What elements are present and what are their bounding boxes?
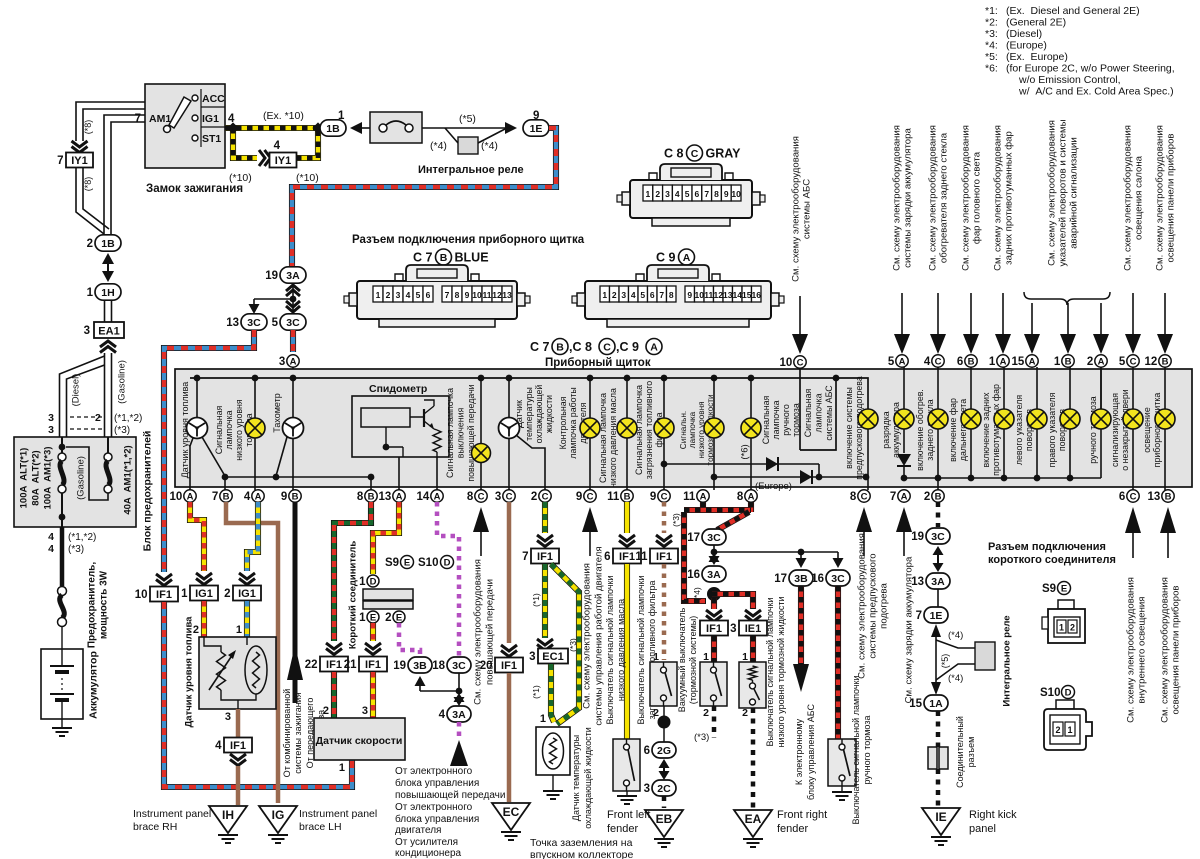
svg-text:17: 17 (774, 573, 787, 585)
wire big dot to IF1 (711, 598, 717, 609)
svg-text:правого указателя: правого указателя (1047, 392, 1057, 467)
svg-text:8: 8 (850, 491, 857, 503)
svg-text:EA: EA (745, 812, 762, 826)
svg-text:(Europe): (Europe) (1006, 40, 1047, 52)
wire 4 IF1 to IH ground brown (236, 766, 241, 805)
svg-text:Выключатель сигнальной лампочк: Выключатель сигнальной лампочки (636, 576, 646, 725)
svg-text:задних противотуманных фар: задних противотуманных фар (1003, 131, 1014, 265)
svg-text:От электронного: От электронного (395, 802, 473, 813)
svg-text:(*4): (*4) (481, 140, 498, 152)
svg-text:противотуманных фар: противотуманных фар (991, 384, 1001, 476)
svg-text:освещения салона: освещения салона (1133, 155, 1144, 240)
connector C8 drawing (630, 180, 752, 218)
svg-text:S10: S10 (418, 557, 438, 569)
svg-text:3A: 3A (452, 709, 466, 721)
arrow to 10C from ABS circuit (799, 296, 801, 334)
svg-text:3A: 3A (707, 569, 721, 581)
ground IE right kick panel (922, 808, 960, 835)
diode charge lamp (897, 454, 911, 466)
bus junction (252, 375, 259, 382)
svg-text:4: 4 (924, 356, 931, 368)
ground EA front right fender ground (743, 839, 763, 847)
svg-text:Сигнальная лампочка: Сигнальная лампочка (598, 393, 608, 483)
svg-text:1E: 1E (930, 610, 943, 622)
svg-text:Соединительный: Соединительный (955, 716, 965, 788)
svg-text:C: C (1130, 356, 1137, 367)
svg-text:A: A (1098, 356, 1105, 367)
svg-text:Аккумулятор: Аккумулятор (88, 651, 100, 719)
indicator lamp (1060, 409, 1080, 429)
svg-text:C 7: C 7 (530, 340, 550, 354)
svg-text:4: 4 (439, 709, 446, 721)
svg-text:4: 4 (675, 189, 680, 199)
svg-text:Датчик уровня топлива: Датчик уровня топлива (183, 616, 194, 728)
svg-text:A: A (290, 356, 297, 367)
svg-text:2: 2 (386, 290, 391, 300)
svg-text:3: 3 (48, 412, 54, 424)
wire bottom bus to 2B exit (937, 478, 939, 490)
relay path top (445, 127, 505, 129)
wire temp gauge to 2C (516, 435, 545, 490)
svg-text:4: 4 (48, 531, 54, 543)
panel bottom bus wire left (225, 476, 372, 478)
svg-text:короткого соединителя: короткого соединителя (988, 554, 1116, 566)
svg-text:1: 1 (989, 356, 996, 368)
svg-text:лампочка: лампочка (688, 411, 697, 448)
wire EA1 branch diesel (60, 356, 105, 437)
svg-text:4: 4 (406, 290, 411, 300)
svg-text:10: 10 (695, 290, 705, 300)
chevron into 10 IF1 (156, 574, 172, 586)
svg-text:8: 8 (737, 491, 744, 503)
svg-text:охлаждающей жидкости: охлаждающей жидкости (583, 727, 593, 829)
svg-text:См. схему электрооборудования: См. схему электрооборудования (1125, 577, 1136, 723)
svg-text:освещения панели приборов: освещения панели приборов (1170, 585, 1181, 714)
arrow 9C up (582, 507, 598, 532)
svg-text:Точка заземления на: Точка заземления на (530, 837, 633, 849)
wire IG1 to sender pin 2 (201, 601, 207, 637)
svg-text:1: 1 (236, 624, 242, 636)
svg-text:10: 10 (135, 589, 148, 601)
chevron into 20 IF1 (501, 645, 517, 657)
connector S9 drawing (1058, 600, 1074, 609)
junction in fuse block (59, 444, 66, 451)
wire 3A to junction (292, 284, 294, 299)
wire 3B to ABS ecu red-black (798, 586, 804, 664)
wire ignition loop down (233, 128, 257, 158)
wire tach to 9B (292, 438, 294, 490)
svg-text:См. схему электрооборудования: См. схему электрооборудования (790, 136, 801, 282)
svg-text:B: B (935, 491, 942, 502)
wire 7 IF1 down left (542, 564, 548, 638)
indicator lamp (894, 409, 914, 429)
svg-text:(*3): (*3) (671, 513, 681, 527)
wire IY1 to 1B (76, 168, 104, 234)
arrow 3C to 3A right (937, 548, 939, 570)
svg-text:6: 6 (650, 290, 655, 300)
svg-text:panel: panel (969, 823, 996, 835)
svg-text:1: 1 (359, 576, 366, 588)
arrow into 17 3B (800, 552, 802, 558)
svg-text:9: 9 (687, 290, 692, 300)
chevron into 11 IF1 (656, 535, 672, 547)
speed sensor box (314, 718, 405, 760)
svg-text:Спидометр: Спидометр (369, 383, 427, 395)
svg-text:13: 13 (1148, 491, 1161, 503)
svg-text:ручного: ручного (781, 404, 791, 436)
diode junction (816, 474, 823, 481)
svg-text:,C 9: ,C 9 (616, 340, 639, 354)
svg-text:3C: 3C (452, 660, 466, 672)
svg-text:См. схему электрооборудования: См. схему электрооборудования (472, 559, 483, 705)
svg-text:См. схему электрооборудования: См. схему электрооборудования (856, 533, 867, 679)
ground IE right kick panel ground (931, 837, 951, 845)
ground IG instrument panel brace LH (259, 806, 297, 833)
terminal contact AM1 (164, 126, 171, 133)
svg-text:охлаждающей: охлаждающей (534, 385, 544, 444)
svg-text:Сигнальная: Сигнальная (803, 389, 813, 438)
diode D2 (800, 470, 812, 484)
tachometer gauge (283, 418, 304, 439)
wire pin to lamp (1132, 367, 1134, 409)
terminal contact ACC (192, 95, 198, 101)
svg-text:3: 3 (495, 491, 501, 503)
diode wire 1 (664, 463, 819, 465)
svg-text:См. схему электрооборудования: См. схему электрооборудования (960, 125, 971, 271)
ground EC intake manifold ground (501, 832, 521, 840)
wire 11B yellow (624, 502, 630, 533)
junction below 3A (290, 296, 297, 303)
arrow to ABS ecu (793, 664, 809, 692)
svg-text:A: A (748, 491, 755, 502)
svg-text:системы зажигания: системы зажигания (293, 692, 303, 773)
svg-text:разъем: разъем (966, 737, 976, 768)
svg-text:ручного тормоза: ручного тормоза (862, 716, 872, 785)
svg-text:приборного щитка: приборного щитка (1152, 393, 1162, 468)
sender internal wires (204, 637, 256, 709)
svg-text:блоку управления АБС: блоку управления АБС (806, 703, 816, 800)
svg-text:подогрева: подогрева (878, 582, 889, 628)
wire 2C to EB black dashed (662, 796, 667, 808)
svg-text:включение задних: включение задних (981, 392, 991, 468)
svg-text:20: 20 (480, 660, 493, 672)
svg-text:*4:: *4: (985, 40, 998, 52)
wire sender to 4 IF1 brown (236, 709, 241, 738)
svg-text:2: 2 (1070, 623, 1075, 633)
svg-text:B: B (1162, 356, 1169, 367)
bus junction (290, 375, 297, 382)
svg-text:1B: 1B (101, 238, 115, 250)
svg-text:GRAY: GRAY (706, 147, 742, 161)
svg-text:См. схему электрооборудования: См. схему электрооборудования (927, 125, 938, 271)
wire 9C brown dashed (662, 502, 667, 533)
wire door lamp to 6C exit (1132, 429, 1134, 490)
svg-text:2: 2 (95, 412, 101, 424)
svg-text:B: B (968, 356, 975, 367)
svg-text:сигнализирующая: сигнализирующая (1110, 393, 1120, 467)
svg-text:Интегральное реле: Интегральное реле (1001, 615, 1012, 706)
svg-text:От электронного: От электронного (395, 766, 473, 777)
svg-text:IG1: IG1 (195, 588, 213, 600)
bus junction (748, 375, 755, 382)
oil pressure switch (613, 739, 640, 791)
diode junction 8C column (863, 474, 870, 481)
svg-text:4: 4 (631, 290, 636, 300)
svg-text:15: 15 (1012, 356, 1025, 368)
svg-text:(*3): (*3) (68, 544, 84, 555)
svg-text:3: 3 (644, 783, 650, 795)
svg-text:IG1: IG1 (238, 588, 256, 600)
bottom bus junction 8B (368, 474, 375, 481)
parking brake switch ground wire (841, 786, 843, 791)
svg-text:1: 1 (602, 290, 607, 300)
svg-text:19: 19 (393, 660, 406, 672)
parking brake switch ground (832, 792, 852, 800)
ground IH instrument panel brace RH (209, 806, 247, 833)
vacuum switch (650, 662, 677, 706)
svg-text:9: 9 (724, 189, 729, 199)
connector C7 drawing (357, 281, 517, 319)
svg-text:4: 4 (48, 543, 54, 555)
wire 11 IF1 to vacuum switch (662, 564, 667, 660)
svg-text:4: 4 (228, 113, 235, 125)
svg-text:2: 2 (742, 707, 748, 719)
wire filter lamp to 9C2 (663, 438, 665, 490)
svg-text:3: 3 (621, 290, 626, 300)
svg-text:10: 10 (472, 290, 482, 300)
wire bus to temp gauge (508, 378, 510, 417)
svg-text:2: 2 (655, 189, 660, 199)
svg-text:IG1: IG1 (202, 113, 219, 125)
bus junction (506, 375, 513, 382)
chevron into IF1 brake (706, 610, 722, 622)
svg-text:IF1: IF1 (156, 589, 172, 601)
wire 3A to 1E right (937, 589, 939, 607)
wire 14A purple (437, 502, 459, 656)
wire red-black horizontal (684, 507, 751, 513)
wire ignition 4 to 1B yellow-black (225, 125, 321, 131)
svg-text:6: 6 (426, 290, 431, 300)
speedometer internal wires (386, 417, 437, 457)
sender wiper arrow (209, 654, 233, 690)
svg-text:12: 12 (714, 290, 724, 300)
arrow 8C glow up (856, 507, 872, 532)
wire IE1 to switch (750, 636, 756, 662)
svg-text:1: 1 (339, 762, 345, 774)
svg-text:3A: 3A (286, 270, 300, 282)
connector S10 drawing (1056, 700, 1074, 709)
svg-text:2C: 2C (657, 783, 671, 795)
svg-text:Блок предохранителей: Блок предохранителей (142, 431, 154, 552)
svg-text:Front right: Front right (777, 809, 827, 821)
sender lamp contact (245, 646, 267, 694)
relay path loop (936, 640, 975, 680)
alt pin dashed line 2 (70, 416, 102, 418)
arrow into 16 3C (837, 552, 839, 558)
svg-text:температуры: температуры (524, 387, 534, 441)
svg-text:B: B (556, 342, 564, 354)
wire 10A yellow-red (190, 502, 204, 571)
wire 1H to EA1 (104, 300, 106, 322)
wire junction to 5 3C (292, 299, 294, 314)
junction line to 3B 3C ovals (714, 551, 838, 553)
svg-text:18: 18 (432, 660, 445, 672)
svg-text:4: 4 (244, 491, 251, 503)
wire IG1 to sender pin 1 (244, 601, 250, 637)
svg-text:9: 9 (465, 290, 470, 300)
chevron into 3 IE1 (745, 610, 761, 622)
wire 3W fuse to battery (61, 626, 63, 649)
wire 8B green-red (334, 502, 371, 641)
svg-text:16: 16 (752, 290, 762, 300)
svg-text:EB: EB (656, 812, 673, 826)
wire joint connector to IE (936, 769, 941, 806)
wire pin to lamp (1069, 367, 1071, 409)
svg-text:двигателя: двигателя (395, 825, 441, 836)
svg-text:(Ex. *10): (Ex. *10) (263, 110, 304, 122)
svg-text:1E: 1E (530, 123, 543, 135)
svg-text:8: 8 (357, 491, 364, 503)
svg-text:внутреннего освещения: внутреннего освещения (1136, 597, 1147, 704)
junction diamond right (312, 122, 323, 133)
svg-text:3B: 3B (794, 573, 808, 585)
svg-text:2: 2 (224, 588, 230, 600)
svg-text:повышающей передачи: повышающей передачи (395, 790, 505, 801)
svg-text:(for Europe 2C, w/o Power Stee: (for Europe 2C, w/o Power Steering, (1006, 63, 1175, 75)
wire 2A pin stub (1100, 367, 1102, 409)
svg-text:1: 1 (703, 651, 709, 663)
svg-text:1: 1 (742, 651, 748, 663)
svg-text:Сигнальн.: Сигнальн. (679, 411, 688, 449)
wire AM1 to IY1 (76, 102, 145, 141)
svg-text:IE1: IE1 (745, 623, 762, 635)
svg-text:16: 16 (811, 573, 824, 585)
svg-text:7: 7 (445, 290, 450, 300)
svg-text:*3:: *3: (985, 28, 998, 40)
svg-text:2: 2 (531, 491, 537, 503)
arrow into top pin (1164, 293, 1166, 334)
svg-text:(Ex. Diesel and General 2E): (Ex. Diesel and General 2E) (1006, 5, 1140, 17)
svg-text:низкого уровня тормозной жидко: низкого уровня тормозной жидкости (776, 596, 786, 747)
svg-text:Right kick: Right kick (969, 809, 1017, 821)
svg-text:3: 3 (84, 325, 90, 337)
svg-text:7: 7 (57, 155, 63, 167)
svg-text:16: 16 (687, 569, 700, 581)
ABS lamp box path (800, 378, 836, 450)
alt pin dashed line 3 (70, 428, 102, 430)
speedometer junction (383, 444, 390, 451)
svg-text:17: 17 (687, 532, 700, 544)
svg-text:1: 1 (1054, 356, 1061, 368)
svg-text:C: C (478, 491, 485, 502)
svg-text:100A AM1(*3): 100A AM1(*3) (42, 446, 53, 509)
arrow into top pin (1132, 293, 1134, 334)
svg-text:5: 5 (685, 189, 690, 199)
arrow up into 1E (931, 624, 941, 637)
svg-text:1: 1 (1059, 623, 1064, 633)
wire 9B black (293, 502, 298, 703)
wire 1A to joint connector (936, 711, 941, 747)
wire pin to lamp (937, 367, 939, 409)
svg-text:6: 6 (1119, 491, 1125, 503)
lamp (*6) (741, 418, 761, 438)
chevron up to 3A (286, 285, 300, 296)
wire pin to lamp (903, 367, 905, 409)
svg-text:Сигнальная лампочка: Сигнальная лампочка (634, 385, 644, 475)
svg-text:IY1: IY1 (275, 155, 292, 167)
svg-text:19: 19 (265, 270, 278, 282)
arrow up into 3B (419, 686, 421, 691)
oil pressure switch ground (617, 796, 637, 804)
wire pin to lamp (1003, 367, 1005, 409)
svg-text:A: A (255, 491, 262, 502)
svg-text:3C: 3C (707, 532, 721, 544)
svg-text:10: 10 (170, 491, 183, 503)
svg-text:Разъем подключения приборного: Разъем подключения приборного щитка (352, 234, 585, 246)
svg-text:загрязнения топливного: загрязнения топливного (644, 381, 654, 480)
svg-text:См. схему электрооборудования: См. схему электрооборудования (1122, 125, 1133, 271)
svg-text:1: 1 (181, 588, 188, 600)
terminal contact IG1 (192, 115, 198, 121)
wire lamp to bottom bus (1069, 429, 1071, 478)
svg-text:B: B (223, 491, 230, 502)
svg-text:D: D (1065, 688, 1072, 699)
svg-text:IF1: IF1 (619, 551, 635, 563)
svg-text:3: 3 (279, 356, 285, 368)
wire fuel gauge to 10A (190, 438, 193, 490)
chevron into 22 IF1 (326, 643, 342, 655)
svg-text:D: D (444, 558, 451, 569)
wire 2E purple (399, 623, 420, 655)
relay element box (458, 137, 478, 154)
bottom bus junction (901, 475, 908, 482)
connector 9 1E (523, 120, 549, 136)
svg-text:разрядка: разрядка (881, 411, 891, 448)
svg-text:(*8): (*8) (83, 120, 93, 135)
arrow down into 1A (931, 682, 941, 695)
svg-text:1H: 1H (101, 287, 114, 299)
svg-text:5: 5 (272, 317, 279, 329)
svg-text:*5:: *5: (985, 51, 998, 63)
svg-text:D: D (370, 576, 377, 587)
wire 3C to parking brake switch (835, 586, 841, 739)
svg-text:13: 13 (911, 576, 924, 588)
svg-text:фар головного света: фар головного света (971, 151, 982, 244)
wire bus to tachometer (292, 378, 294, 417)
ground IG instrument panel brace LH ground (268, 835, 288, 843)
ground IH instrument panel brace RH ground (218, 835, 238, 843)
connector C9 drawing (585, 281, 771, 319)
bus junction (624, 375, 631, 382)
svg-text:C 9: C 9 (656, 251, 676, 265)
svg-text:C 8: C 8 (664, 147, 684, 161)
svg-text:Выключатель сигнальной лампочк: Выключатель сигнальной лампочки (851, 676, 861, 825)
wire 21 IF1 to speed sensor (370, 672, 376, 718)
fuse 3W (58, 587, 67, 596)
connector 1 1B ignition (320, 120, 346, 136)
svg-text:7: 7 (916, 610, 922, 622)
svg-text:C: C (542, 491, 549, 502)
indicator lamp (928, 409, 948, 429)
wire 1E to 21 IF1 yellow-red (370, 623, 376, 641)
svg-text:IF1: IF1 (365, 659, 381, 671)
battery ground (52, 728, 72, 736)
svg-text:См. схему электрооборудования: См. схему электрооборудования (992, 125, 1003, 271)
panel bottom bus right (904, 477, 1101, 479)
bus junction (711, 375, 718, 382)
arrow 6C up (1125, 507, 1141, 533)
panel top bus wire (190, 378, 868, 409)
